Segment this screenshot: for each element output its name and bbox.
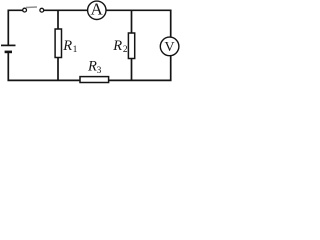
- wire: battery positive up left side and top to switch: [8, 10, 22, 45]
- resistor R2: body: [128, 33, 134, 59]
- svg-text:R: R: [87, 59, 97, 75]
- wire: battery negative down left side and bottom to R3: [8, 52, 80, 81]
- wire: voltmeter to bottom-right corner and bottom to R3: [109, 56, 171, 81]
- resistor R3: body: [80, 77, 109, 83]
- ammeter A: circle: [88, 1, 106, 19]
- resistor R1: body: [55, 29, 61, 58]
- wire: R1 bottom to bottom wire: [57, 58, 59, 81]
- svg-text:V: V: [164, 40, 174, 55]
- switch S: right contact: [40, 8, 44, 12]
- wire: R2 branch top drop: [131, 10, 133, 33]
- svg-text:R: R: [112, 38, 122, 54]
- battery cell: long plate: [1, 44, 16, 46]
- switch S: blade (open): [26, 6, 37, 9]
- voltmeter V: circle: [160, 37, 179, 56]
- battery cell: short thick plate: [5, 51, 12, 54]
- wire: switch to ammeter (junction of R1 branch at x=58): [44, 9, 88, 11]
- wire: ammeter to top-right corner, down to voltmeter: [106, 10, 171, 37]
- switch S: left contact: [23, 8, 27, 12]
- svg-text:1: 1: [73, 45, 78, 55]
- svg-text:R: R: [62, 38, 72, 54]
- svg-text:2: 2: [123, 45, 128, 55]
- svg-text:3: 3: [97, 66, 102, 76]
- wire: R2 bottom to bottom wire: [131, 59, 133, 81]
- wire: R1 branch top drop: [57, 10, 59, 29]
- svg-text:A: A: [90, 0, 103, 19]
